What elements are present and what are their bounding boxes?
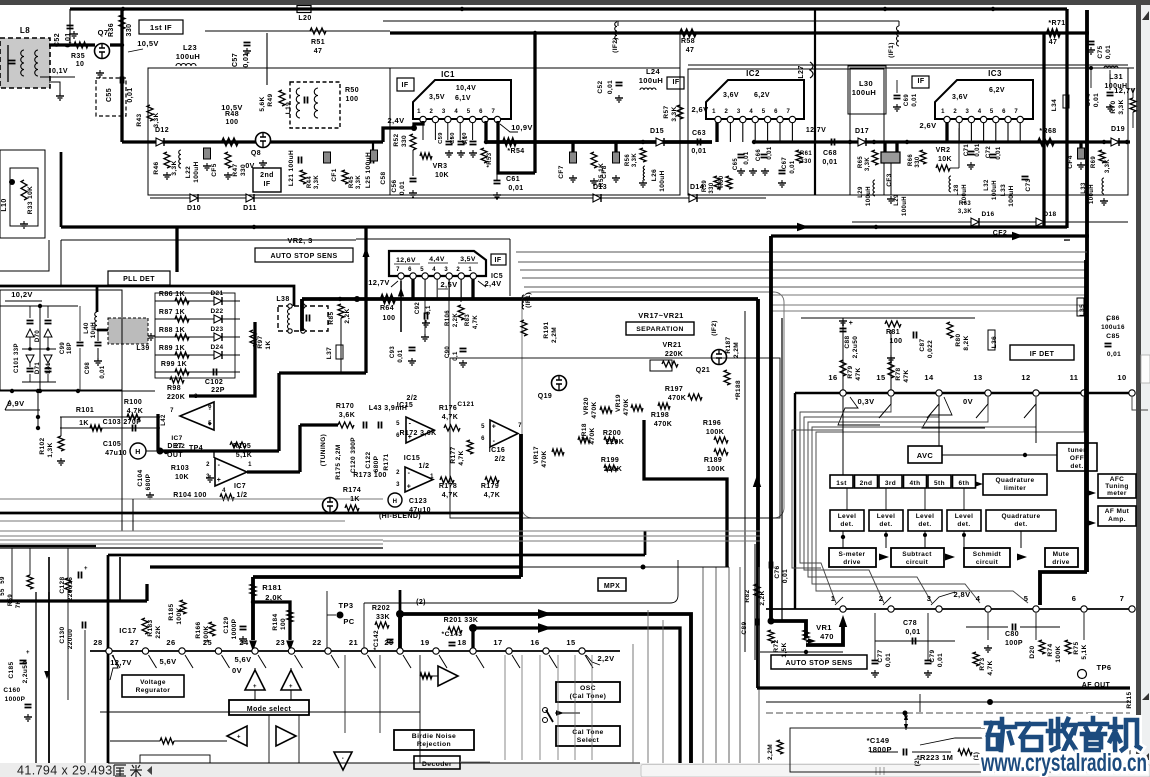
svg-text:Amp.: Amp.: [1108, 516, 1126, 523]
svg-text:D15: D15: [650, 128, 664, 135]
svg-text:Voltage: Voltage: [140, 679, 166, 686]
svg-text:0,01: 0,01: [912, 93, 918, 107]
svg-text:R69: R69: [1091, 156, 1097, 168]
svg-text:25: 25: [203, 638, 212, 647]
svg-text:+: +: [407, 483, 412, 490]
svg-text:C76: C76: [774, 565, 781, 578]
svg-text:D18: D18: [1043, 211, 1056, 218]
svg-text:0,01: 0,01: [885, 653, 892, 667]
svg-text:R174: R174: [343, 487, 361, 494]
svg-text:680P: 680P: [373, 455, 380, 472]
svg-text:2,6V: 2,6V: [919, 121, 936, 130]
svg-text:IC7: IC7: [234, 483, 246, 490]
svg-text:5: 5: [420, 267, 424, 273]
svg-text:+: +: [849, 320, 854, 327]
svg-text:IC1: IC1: [441, 70, 455, 79]
svg-text:2,2u50: 2,2u50: [852, 336, 859, 359]
svg-text:0,01: 0,01: [1093, 93, 1100, 107]
svg-text:C122: C122: [365, 451, 372, 468]
svg-text:-: -: [342, 756, 344, 762]
svg-text:R52: R52: [393, 133, 400, 146]
svg-text:0,01: 0,01: [975, 143, 981, 157]
svg-text:*R54: *R54: [507, 148, 524, 155]
svg-text:IC2: IC2: [746, 69, 760, 78]
svg-text:L21 100uH: L21 100uH: [288, 150, 295, 186]
svg-text:Mute: Mute: [1053, 551, 1070, 558]
svg-text:6: 6: [208, 404, 212, 410]
svg-text:3,3K: 3,3K: [958, 209, 973, 215]
svg-text:DET: DET: [167, 443, 183, 450]
svg-text:L26: L26: [651, 169, 658, 181]
svg-text:3,3K: 3,3K: [1118, 99, 1125, 114]
svg-text:H: H: [135, 449, 140, 456]
svg-text:L32: L32: [984, 179, 990, 191]
svg-text:5,1K: 5,1K: [1081, 644, 1088, 659]
svg-text:det.: det.: [840, 521, 853, 528]
svg-text:IF: IF: [494, 257, 501, 264]
svg-text:C69: C69: [904, 94, 910, 106]
svg-text:OSC: OSC: [580, 685, 596, 692]
svg-text:15: 15: [876, 373, 885, 382]
svg-text:meter: meter: [1107, 490, 1127, 497]
svg-text:2/2: 2/2: [407, 395, 418, 402]
svg-text:5: 5: [467, 109, 471, 115]
svg-text:6: 6: [408, 267, 412, 273]
svg-text:7: 7: [1014, 109, 1018, 115]
svg-text:0,01: 0,01: [508, 185, 523, 192]
svg-text:100: 100: [890, 338, 903, 345]
svg-text:D21: D21: [210, 290, 223, 297]
svg-text:R196: R196: [703, 420, 721, 427]
svg-text:4,4V: 4,4V: [429, 256, 445, 263]
svg-text:330: 330: [915, 156, 921, 167]
svg-text:C59: C59: [438, 132, 444, 144]
svg-text:100uH: 100uH: [852, 88, 877, 97]
svg-text:(HI-BLEND): (HI-BLEND): [379, 513, 421, 520]
svg-text:R97: R97: [257, 335, 264, 348]
svg-text:4,7K: 4,7K: [987, 660, 994, 675]
svg-text:C61: C61: [506, 176, 520, 183]
svg-text:3: 3: [966, 109, 970, 115]
svg-text:10,2V: 10,2V: [11, 290, 33, 299]
svg-text:+: +: [289, 684, 293, 690]
svg-text:2,2M: 2,2M: [733, 342, 740, 358]
svg-text:2,2V: 2,2V: [597, 654, 614, 663]
svg-text:3rd: 3rd: [885, 480, 896, 487]
svg-text:7: 7: [787, 109, 791, 115]
svg-text:1st: 1st: [836, 480, 847, 487]
svg-text:-: -: [218, 462, 221, 469]
svg-text:R78: R78: [895, 367, 902, 380]
svg-text:L10: L10: [1, 198, 8, 211]
svg-text:R58: R58: [681, 38, 695, 45]
svg-text:D10: D10: [187, 205, 201, 212]
svg-text:5: 5: [1024, 594, 1029, 603]
svg-text:100uH: 100uH: [659, 170, 666, 192]
svg-text:C63: C63: [692, 130, 706, 137]
svg-text:R100: R100: [124, 399, 142, 406]
svg-text:R191: R191: [543, 321, 550, 338]
svg-text:680P: 680P: [145, 473, 152, 490]
svg-text:C99: C99: [60, 342, 66, 354]
svg-text:det.: det.: [957, 521, 970, 528]
svg-text:-: -: [493, 438, 496, 445]
svg-text:L42: L42: [161, 414, 167, 426]
svg-text:100uH: 100uH: [902, 196, 908, 216]
svg-text:R88 1K: R88 1K: [159, 327, 185, 334]
svg-text:470K: 470K: [589, 427, 596, 444]
svg-text:+: +: [237, 735, 241, 741]
svg-text:10: 10: [1117, 373, 1126, 382]
svg-text:2: 2: [456, 267, 460, 273]
svg-text:C65: C65: [733, 158, 739, 170]
svg-text:0,01: 0,01: [767, 146, 773, 160]
svg-text:C105: C105: [103, 441, 121, 448]
svg-text:Birdie Noise: Birdie Noise: [412, 733, 456, 740]
svg-text:C129: C129: [223, 616, 230, 633]
svg-text:7: 7: [396, 267, 400, 273]
svg-text:3,3K: 3,3K: [314, 175, 320, 190]
svg-text:100uH: 100uH: [992, 180, 998, 200]
svg-text:R177: R177: [450, 446, 457, 463]
svg-text:det.: det.: [918, 521, 931, 528]
svg-text:Q21: Q21: [696, 367, 710, 374]
svg-text:Regurator: Regurator: [136, 687, 171, 694]
svg-text:470K: 470K: [623, 398, 630, 415]
svg-text:C160: C160: [3, 687, 20, 694]
svg-text:100uH: 100uH: [639, 76, 664, 85]
svg-text:0,01: 0,01: [744, 151, 750, 165]
svg-text:16: 16: [828, 373, 837, 382]
svg-text:2: 2: [396, 470, 400, 476]
svg-text:15: 15: [566, 638, 575, 647]
svg-text:*R60: *R60: [719, 175, 725, 190]
svg-text:7: 7: [492, 109, 496, 115]
svg-text:Level: Level: [838, 513, 857, 520]
svg-text:3,5V: 3,5V: [429, 94, 445, 101]
svg-text:Subtract: Subtract: [902, 551, 932, 558]
svg-text:0,1: 0,1: [453, 351, 459, 361]
svg-text:6: 6: [774, 109, 778, 115]
svg-text:CF8: CF8: [601, 165, 608, 178]
svg-text:0,01: 0,01: [100, 365, 106, 379]
svg-text:14: 14: [924, 373, 934, 382]
svg-text:2: 2: [725, 109, 729, 115]
svg-text:C75: C75: [1097, 45, 1104, 58]
svg-text:R198: R198: [651, 412, 669, 419]
svg-text:12: 12: [1021, 373, 1030, 382]
svg-text:Quadrature: Quadrature: [1001, 513, 1040, 520]
svg-text:(2): (2): [416, 599, 426, 606]
svg-text:0,01: 0,01: [127, 87, 134, 102]
svg-text:470: 470: [820, 632, 834, 641]
svg-text:R51: R51: [311, 39, 325, 46]
svg-text:IC16: IC16: [489, 447, 505, 454]
svg-text:4,7K: 4,7K: [442, 414, 458, 421]
svg-text:Level: Level: [877, 513, 896, 520]
svg-text:1000P: 1000P: [5, 696, 26, 703]
svg-text:C85: C85: [1106, 333, 1120, 340]
svg-text:100: 100: [346, 96, 359, 103]
svg-text:Rejection: Rejection: [417, 741, 451, 748]
svg-text:19: 19: [420, 638, 429, 647]
svg-text:R74: R74: [1047, 643, 1054, 656]
svg-text:0,01: 0,01: [905, 629, 920, 636]
svg-text:0,1: 0,1: [426, 305, 432, 315]
svg-text:D22: D22: [210, 308, 223, 315]
svg-text:R36: R36: [108, 23, 115, 37]
svg-text:6,2V: 6,2V: [754, 92, 770, 99]
svg-text:C104: C104: [137, 469, 144, 486]
svg-text:R172 3,6K: R172 3,6K: [399, 430, 436, 437]
svg-text:4: 4: [749, 109, 753, 115]
svg-text:+: +: [492, 424, 497, 431]
svg-text:41.794 x 29.493: 41.794 x 29.493: [17, 764, 113, 777]
svg-text:100: 100: [280, 618, 287, 630]
svg-text:7K: 7K: [16, 600, 22, 609]
svg-text:0,01: 0,01: [399, 181, 406, 195]
svg-text:IF: IF: [401, 82, 408, 89]
svg-text:C102: C102: [205, 379, 223, 386]
svg-text:D24: D24: [210, 344, 223, 351]
svg-text:SEPARATION: SEPARATION: [636, 326, 684, 333]
svg-text:VR3: VR3: [433, 163, 448, 170]
svg-text:R185: R185: [168, 603, 175, 620]
svg-text:8,2K: 8,2K: [963, 335, 970, 350]
svg-text:L30: L30: [859, 79, 873, 88]
svg-text:C90: C90: [445, 346, 451, 358]
svg-text:IF DET: IF DET: [1030, 351, 1055, 358]
svg-text:IF: IF: [263, 181, 270, 188]
svg-text:10K: 10K: [175, 474, 189, 481]
svg-text:R170: R170: [336, 403, 354, 410]
svg-text:R87 1K: R87 1K: [159, 309, 185, 316]
svg-text:R59: R59: [8, 594, 14, 606]
svg-text:TP3: TP3: [339, 601, 354, 610]
svg-text:AFC: AFC: [1110, 476, 1125, 483]
svg-text:18P: 18P: [67, 342, 73, 354]
svg-text:L20: L20: [298, 15, 311, 22]
svg-text:4,7K: 4,7K: [442, 492, 458, 499]
svg-text:2: 2: [953, 109, 957, 115]
svg-text:R79: R79: [847, 365, 854, 378]
svg-text:R197: R197: [665, 386, 683, 393]
svg-text:C88: C88: [844, 335, 851, 348]
svg-text:C185: C185: [8, 661, 15, 678]
svg-text:D13: D13: [593, 184, 607, 191]
svg-text:4,7K: 4,7K: [458, 450, 465, 465]
svg-text:1: 1: [417, 109, 421, 115]
svg-text:*R223 1M: *R223 1M: [917, 753, 954, 762]
svg-text:100K: 100K: [706, 429, 724, 436]
svg-text:2,8V: 2,8V: [953, 590, 970, 599]
svg-text:R81: R81: [886, 329, 900, 336]
svg-text:IC3: IC3: [988, 69, 1002, 78]
svg-text:L29: L29: [894, 194, 900, 206]
svg-text:0,022: 0,022: [927, 340, 934, 358]
svg-text:(1): (1): [974, 752, 980, 761]
svg-text:5: 5: [990, 109, 994, 115]
svg-text:3,3K: 3,3K: [171, 160, 178, 175]
svg-text:10,5V: 10,5V: [137, 39, 159, 48]
svg-text:C72: C72: [986, 146, 992, 158]
svg-text:-: -: [409, 420, 412, 427]
svg-text:*R71: *R71: [1048, 20, 1065, 27]
svg-text:C86: C86: [1106, 315, 1120, 322]
svg-text:D70: D70: [35, 330, 41, 342]
svg-text:L28: L28: [954, 184, 960, 196]
svg-text:PC: PC: [343, 617, 354, 626]
svg-text:R101: R101: [76, 407, 94, 414]
svg-text:R173 100: R173 100: [353, 472, 387, 479]
svg-text:*R188: *R188: [735, 380, 742, 400]
svg-text:20: 20: [384, 638, 393, 647]
svg-text:R75: R75: [1073, 641, 1080, 654]
svg-text:18: 18: [457, 638, 466, 647]
svg-text:circuit: circuit: [976, 559, 999, 566]
svg-text:R63: R63: [959, 201, 971, 207]
svg-text:VR21: VR21: [662, 342, 681, 349]
svg-text:10: 10: [76, 61, 85, 68]
svg-text:Cal Tone: Cal Tone: [572, 729, 603, 736]
svg-text:2,2M: 2,2M: [767, 744, 774, 760]
svg-text:330: 330: [126, 24, 133, 37]
svg-text:tuner: tuner: [1068, 447, 1086, 454]
svg-text:220K: 220K: [167, 394, 185, 401]
svg-text:0,01: 0,01: [996, 146, 1002, 160]
svg-text:3: 3: [927, 594, 932, 603]
svg-text:47: 47: [1049, 39, 1058, 46]
svg-text:AF Mut: AF Mut: [1105, 508, 1130, 515]
svg-text:R65: R65: [858, 156, 864, 168]
svg-text:1: 1: [468, 267, 472, 273]
svg-text:R49: R49: [267, 93, 274, 106]
svg-text:4: 4: [976, 594, 981, 603]
svg-text:1000P: 1000P: [231, 618, 238, 639]
svg-text:+: +: [84, 566, 88, 572]
svg-text:Tuning: Tuning: [1105, 483, 1129, 490]
svg-text:L40: L40: [84, 322, 90, 334]
svg-text:R89 1K: R89 1K: [159, 345, 185, 352]
svg-text:4th: 4th: [910, 480, 921, 487]
svg-text:drive: drive: [1052, 559, 1070, 566]
svg-text:1K: 1K: [79, 420, 89, 427]
svg-text:R82: R82: [744, 589, 751, 602]
svg-text:L33: L33: [1081, 182, 1087, 194]
svg-text:L8: L8: [20, 26, 30, 35]
svg-text:TP6: TP6: [1097, 663, 1112, 672]
svg-text:1K: 1K: [350, 496, 360, 503]
svg-text:D71: D71: [35, 362, 41, 374]
svg-text:(IF1): (IF1): [525, 292, 532, 308]
svg-text:MPX: MPX: [604, 583, 620, 590]
svg-text:CF3: CF3: [886, 173, 893, 186]
svg-text:5th: 5th: [934, 480, 945, 487]
svg-text:470K: 470K: [668, 395, 686, 402]
svg-text:3: 3: [737, 109, 741, 115]
svg-text:R70: R70: [1110, 100, 1117, 113]
svg-text:R102: R102: [39, 437, 46, 454]
svg-text:Decoder: Decoder: [422, 761, 452, 768]
svg-text:L31: L31: [1109, 72, 1123, 81]
svg-text:R43: R43: [136, 113, 143, 126]
svg-text:D19: D19: [1111, 126, 1125, 133]
svg-text:100P: 100P: [1005, 640, 1023, 647]
svg-text:C74: C74: [1085, 93, 1092, 106]
svg-text:*C143: *C143: [442, 631, 463, 638]
svg-text:100uH: 100uH: [176, 52, 201, 61]
svg-text:R181: R181: [262, 583, 282, 592]
svg-text:3,3K: 3,3K: [671, 106, 678, 121]
svg-text:47u10: 47u10: [105, 450, 127, 457]
svg-text:2,4V: 2,4V: [484, 279, 501, 288]
svg-text:Level: Level: [955, 513, 974, 520]
svg-text:L43 3,9mH: L43 3,9mH: [369, 405, 408, 412]
svg-text:5: 5: [481, 424, 485, 430]
svg-text:100uH: 100uH: [1008, 185, 1015, 207]
svg-text:R175 2,2M: R175 2,2M: [335, 444, 342, 479]
svg-text:0,3V: 0,3V: [857, 397, 874, 406]
svg-text:IC17: IC17: [119, 626, 136, 635]
svg-text:R106: R106: [445, 310, 451, 326]
svg-text:5,1K: 5,1K: [236, 452, 252, 459]
svg-text:470K: 470K: [541, 450, 548, 467]
svg-text:10,4V: 10,4V: [456, 85, 476, 92]
svg-text:D17: D17: [855, 128, 869, 135]
svg-text:1: 1: [831, 594, 836, 603]
svg-text:R99 1K: R99 1K: [161, 361, 187, 368]
svg-text:2nd: 2nd: [860, 480, 873, 487]
svg-text:CF4: CF4: [1067, 155, 1074, 168]
svg-text:C73: C73: [1025, 178, 1032, 191]
svg-text:1/2: 1/2: [419, 463, 430, 470]
svg-text:100K: 100K: [1055, 645, 1062, 662]
svg-text:+: +: [26, 650, 30, 656]
svg-text:4: 4: [432, 267, 436, 273]
svg-text:12,7V: 12,7V: [368, 278, 390, 287]
svg-text:VR19: VR19: [615, 394, 622, 412]
svg-text:VR20: VR20: [583, 397, 590, 415]
svg-text:330: 330: [401, 135, 408, 147]
svg-text:AUTO STOP SENS: AUTO STOP SENS: [785, 660, 852, 667]
svg-text:6: 6: [1002, 109, 1006, 115]
svg-text:CF1: CF1: [331, 168, 338, 181]
svg-text:C68: C68: [823, 150, 837, 157]
svg-text:C130: C130: [59, 626, 66, 643]
svg-text:16: 16: [530, 638, 539, 647]
svg-text:12,7V: 12,7V: [1114, 86, 1136, 95]
svg-text:3: 3: [396, 482, 400, 488]
svg-text:R184: R184: [272, 613, 279, 630]
svg-text:10K: 10K: [938, 156, 952, 163]
svg-text:R35: R35: [71, 53, 85, 60]
svg-text:2: 2: [879, 594, 884, 603]
svg-text:3,3K: 3,3K: [356, 175, 362, 190]
svg-text:R50: R50: [345, 87, 359, 94]
svg-text:C78: C78: [903, 620, 917, 627]
svg-text:1: 1: [941, 109, 945, 115]
svg-text:C80: C80: [1005, 631, 1019, 638]
svg-text:Q8: Q8: [251, 150, 261, 157]
svg-text:D23: D23: [210, 326, 223, 333]
svg-text:4,7K: 4,7K: [473, 315, 479, 330]
svg-text:100: 100: [383, 315, 396, 322]
svg-text:470K: 470K: [654, 421, 672, 428]
svg-text:6: 6: [479, 109, 483, 115]
svg-text:C92: C92: [415, 302, 421, 314]
svg-text:R179: R179: [481, 483, 499, 490]
svg-text:C56: C56: [391, 179, 398, 192]
